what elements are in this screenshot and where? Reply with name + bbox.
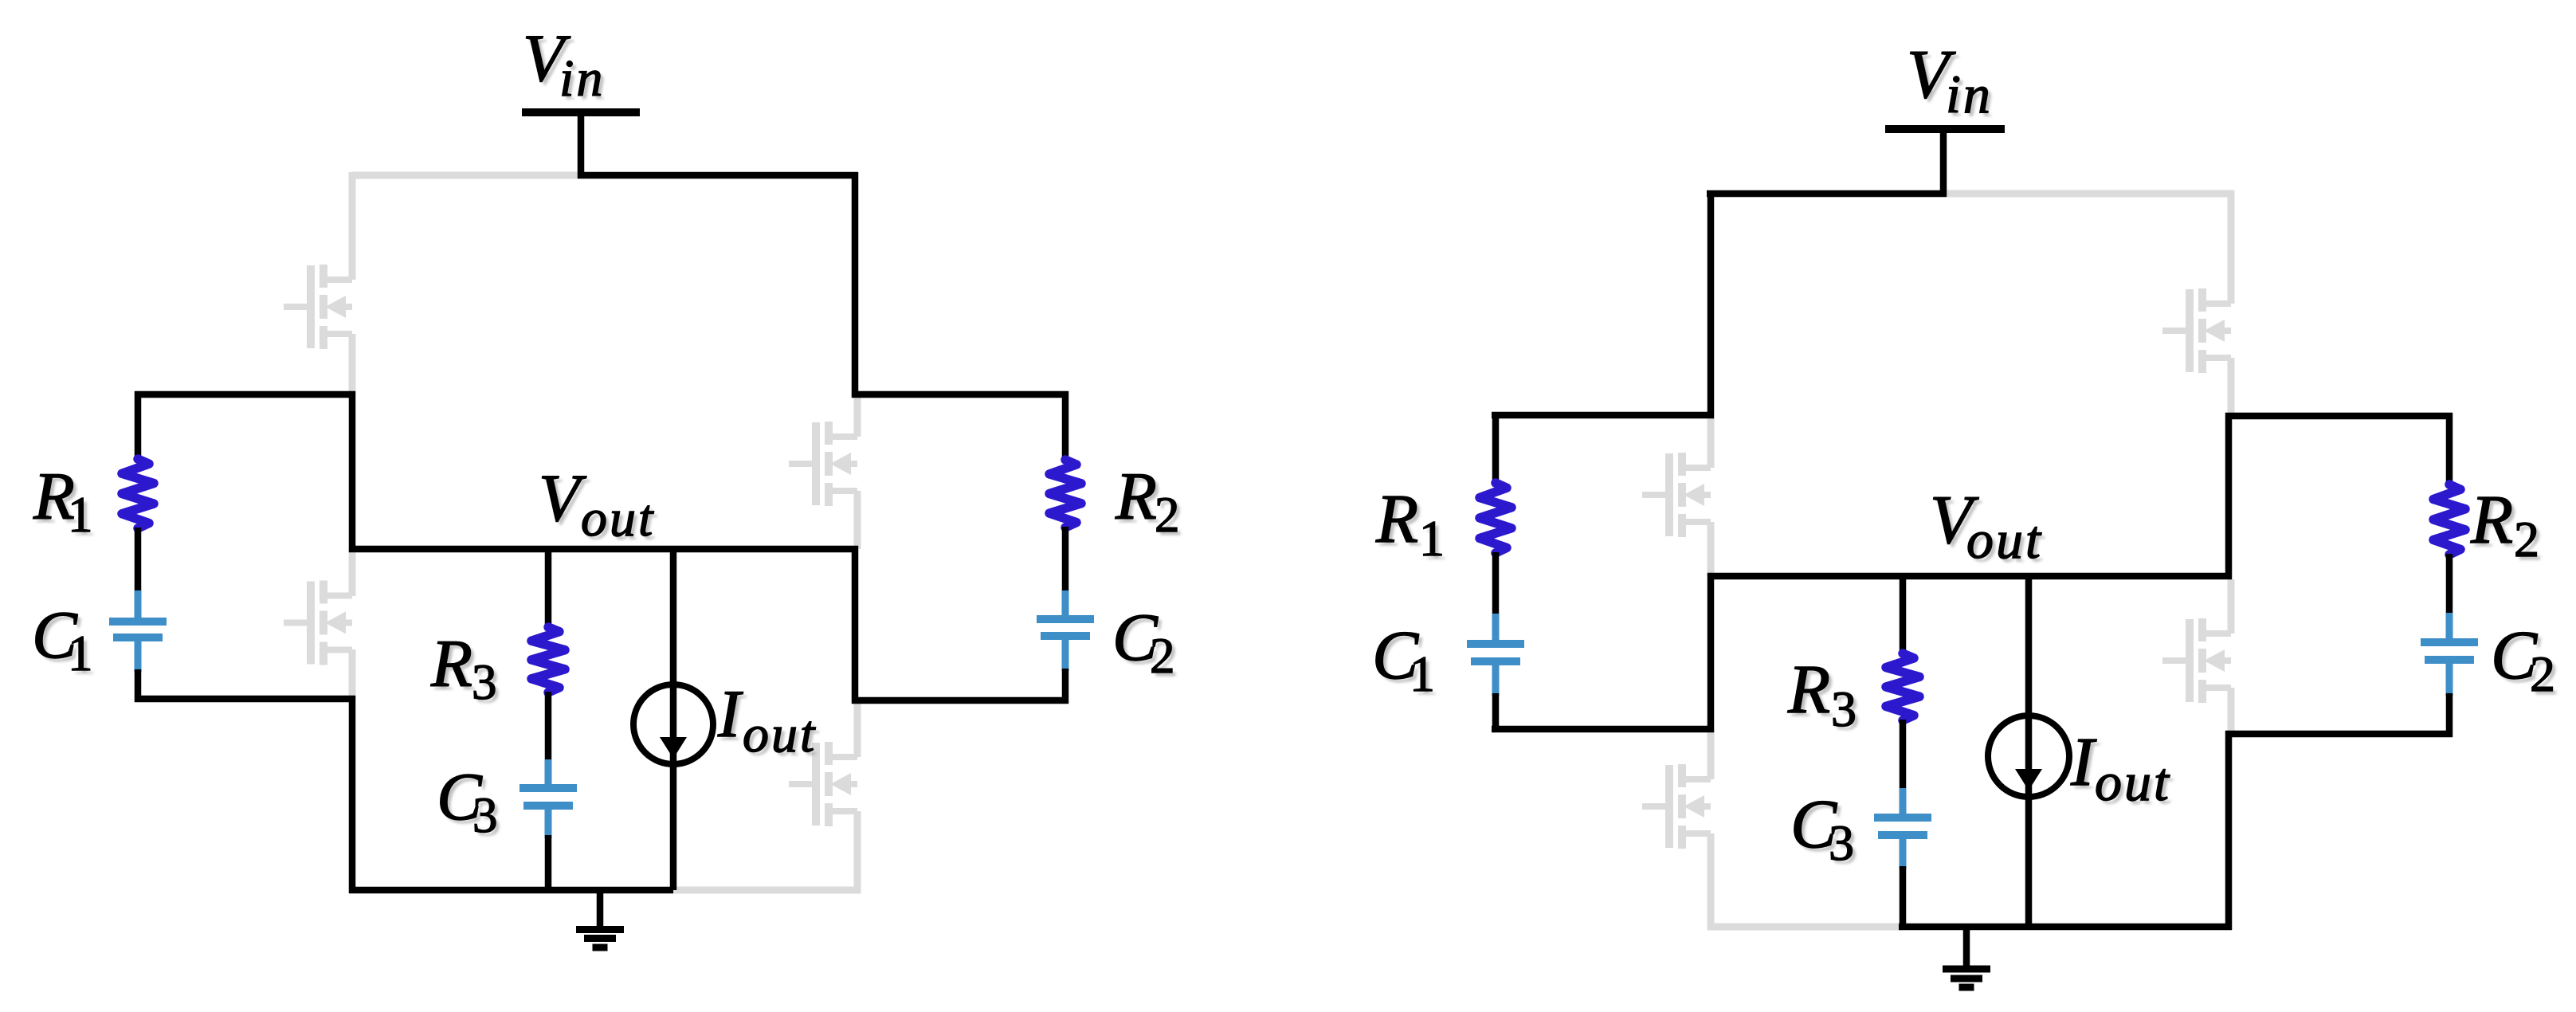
left circuit: gray wire segment below M3 to C1 bottom node — [349, 649, 356, 699]
left circuit: wire Vout horizontal — [349, 546, 858, 553]
right circuit: gray wire segment below Md to C2 bottom corner — [2228, 688, 2235, 731]
left circuit: gray wire segment C2 bottom corner to M4 drain — [854, 700, 861, 757]
capacitor C1 bottom lead (right) — [1492, 664, 1500, 696]
left circuit: gray wire segment above M1 (drain lead) — [349, 172, 356, 280]
right circuit: gray wire segment C1 bottom corner to Mc drain — [1708, 729, 1715, 779]
right circuit: wire R1 to C1 lead — [1492, 552, 1500, 617]
capacitor C3 top lead (right) — [1900, 788, 1907, 815]
label C2 (right) — [2491, 616, 2559, 706]
capacitor C1 — [109, 618, 167, 626]
left circuit: wire left column (switch node to Vout) — [349, 391, 356, 552]
svg-text:2: 2 — [1150, 628, 1175, 684]
label R3 (left) — [430, 626, 500, 714]
svg-text:3: 3 — [472, 787, 498, 843]
label Iout (right) — [2070, 723, 2174, 816]
right circuit: gray wire segment below Mb to Vout node — [1708, 522, 1715, 576]
capacitor C3 (right) — [1874, 814, 1931, 822]
svg-text:1: 1 — [68, 626, 93, 681]
label Vout (left) — [539, 461, 659, 551]
right circuit: wire R3 upper lead — [1900, 573, 1907, 654]
svg-text:2: 2 — [2530, 645, 2555, 702]
label R2 (right) — [2470, 481, 2543, 571]
svg-text:2: 2 — [2514, 511, 2539, 567]
ground symbol (right) — [1943, 927, 1990, 987]
left circuit: wire C1 bottom horizontal — [135, 696, 355, 703]
right circuit: gray wire segment Vout corner to Md drain — [2228, 579, 2235, 633]
svg-text:out: out — [1966, 509, 2043, 570]
right circuit: wire R2 upper lead — [2446, 413, 2453, 485]
capacitor C3 bottom lead (right) — [1900, 837, 1907, 869]
label R1 (left) — [33, 459, 96, 547]
resistor R3 (right) — [1886, 653, 1919, 720]
left circuit: gray wire Vin node to M1 drain — [352, 172, 581, 179]
label C3 (right) — [1790, 785, 1858, 875]
transistor M1 (off, top-left) — [284, 265, 352, 349]
left circuit: wire R1 top horizontal — [135, 391, 355, 398]
right circuit: wire R2 top horizontal — [2225, 413, 2452, 420]
svg-text:out: out — [581, 489, 655, 547]
right circuit: wire C3 lower lead — [1900, 866, 1907, 930]
transistor Ma (off, top-right) — [2162, 288, 2231, 373]
right circuit: Vin lead wire — [1940, 131, 1947, 197]
left circuit: wire left column lower (C1 bottom to ground rail) — [349, 696, 356, 893]
svg-text:in: in — [1946, 64, 1993, 124]
left circuit: wire bottom right horizontal — [852, 697, 1068, 704]
left circuit: wire C3 lower lead — [545, 835, 552, 893]
resistor R3 — [531, 627, 565, 692]
right circuit: gray wire segment R1 top corner to Mb drain — [1708, 418, 1715, 468]
right circuit: wire right column lower (C2 bottom to ground rail) — [2225, 731, 2233, 930]
left circuit: wire R2 upper lead — [1062, 391, 1069, 461]
right circuit: gray wire segment below Ma to R2 top corner — [2228, 358, 2235, 416]
label C1 (left) — [32, 598, 96, 685]
svg-text:3: 3 — [1829, 814, 1854, 871]
svg-text:R: R — [1375, 480, 1418, 557]
left circuit: wire Iout branch — [670, 546, 677, 890]
capacitor C3 — [520, 784, 577, 792]
capacitor C3 bottom lead — [545, 808, 552, 838]
right circuit: wire R1 upper lead — [1492, 412, 1500, 484]
left circuit: gray wire segment below M2 to Vout node — [854, 491, 861, 549]
svg-text:I: I — [717, 677, 743, 751]
label R1 (right) — [1375, 480, 1449, 571]
label C1 (right) — [1372, 616, 1439, 706]
resistor R1 — [122, 459, 154, 528]
svg-text:2: 2 — [1155, 487, 1180, 543]
transistor Md (off, mid-right) — [2162, 618, 2231, 703]
svg-text:1: 1 — [1419, 510, 1445, 567]
label C3 (left) — [437, 759, 501, 847]
svg-text:1: 1 — [1410, 645, 1435, 702]
right circuit: wire left column upper (Vin to R1 top) — [1708, 190, 1715, 418]
capacitor C2 bottom lead — [1062, 638, 1069, 671]
right circuit: wire Vin node horizontal — [1707, 190, 1947, 198]
right circuit: gray ground rail extension — [1708, 924, 1903, 931]
left circuit: Vin lead wire — [578, 115, 585, 178]
left circuit: gray wire segment below M1 (source lead) — [349, 334, 356, 394]
left circuit: wire R2 top horizontal — [852, 391, 1068, 398]
svg-text:R: R — [2470, 481, 2513, 558]
svg-text:in: in — [559, 49, 605, 108]
right circuit: wire right column upper (R2 top to Vout) — [2225, 413, 2233, 579]
current source Iout (left) — [633, 684, 713, 764]
right circuit: gray wire Vin node to Ma drain — [1947, 190, 2234, 198]
label R3 (right) — [1787, 650, 1860, 741]
left circuit: Vin terminal bar — [522, 108, 640, 116]
svg-text:I: I — [2070, 723, 2097, 800]
resistor R1 (right) — [1480, 483, 1511, 553]
capacitor C2 — [1037, 615, 1094, 623]
right circuit: wire C1 lower lead — [1492, 693, 1500, 732]
right circuit: wire Vout horizontal — [1708, 573, 2232, 580]
capacitor C3 top lead — [545, 759, 552, 786]
left circuit: wire right column mid (Vout to C2 bottom) — [852, 546, 859, 704]
label C2 (left) — [1112, 600, 1178, 688]
right circuit: wire C2 lower lead — [2446, 693, 2453, 737]
right circuit: wire R3 to C3 lead — [1900, 720, 1907, 791]
capacitor C1 (right) — [1467, 640, 1524, 648]
resistor R2 — [1049, 460, 1081, 528]
left circuit: wire R3 to C3 lead — [545, 692, 552, 763]
label Vout (right) — [1930, 481, 2046, 574]
right circuit: ground rail — [1899, 924, 2232, 931]
label Vin (left) — [523, 21, 609, 112]
transistor Mc (off, bottom-left) — [1642, 764, 1711, 849]
left circuit: gray wire segment below M4 to ground rail — [854, 811, 861, 893]
capacitor C1 top lead (right) — [1492, 614, 1500, 641]
right circuit: wire C1 bottom horizontal — [1492, 726, 1714, 733]
left circuit: gray wire segment Vout corner to M3 drain — [349, 549, 356, 596]
label Vin (right) — [1907, 35, 1996, 128]
left circuit: wire R3 upper lead — [545, 546, 552, 628]
capacitor C1 bottom lead — [135, 640, 142, 673]
svg-text:3: 3 — [472, 654, 497, 710]
capacitor C2 (right) — [2421, 638, 2478, 646]
right circuit: wire R2 to C2 lead — [2446, 554, 2453, 616]
capacitor C2 top lead (right) — [2446, 613, 2453, 640]
right circuit: wire left column mid (Vout to C1 bottom) — [1708, 573, 1715, 732]
right circuit: Vin terminal bar — [1885, 125, 2005, 133]
current source Iout (right) — [1988, 716, 2069, 797]
left circuit: wire C1 lower lead — [135, 669, 142, 702]
ground symbol (left) — [576, 890, 624, 947]
label R2 (left) — [1115, 459, 1183, 547]
transistor Mb (off, mid-left) — [1642, 453, 1711, 537]
left circuit: gray wire segment top-right corner to M2 drain — [854, 394, 861, 437]
right circuit: gray wire segment below Mc to ground rail — [1708, 834, 1715, 930]
left circuit: ground rail — [349, 887, 673, 894]
right circuit: gray wire segment above Ma (drain lead) — [2228, 190, 2235, 304]
svg-text:R: R — [1787, 650, 1830, 728]
svg-text:out: out — [2095, 751, 2171, 812]
svg-text:3: 3 — [1831, 681, 1857, 737]
svg-text:V: V — [539, 461, 587, 535]
left circuit: wire R1 upper lead — [135, 391, 142, 460]
left circuit: gray ground rail extension — [673, 887, 861, 894]
capacitor C2 top lead — [1062, 590, 1069, 617]
left circuit: wire R1 to C1 lead — [135, 528, 142, 594]
svg-text:R: R — [430, 626, 472, 701]
svg-text:R: R — [1115, 459, 1157, 534]
svg-text:1: 1 — [68, 487, 93, 543]
right circuit: wire C2 bottom horizontal — [2225, 731, 2452, 738]
svg-text:out: out — [743, 705, 817, 763]
right circuit: wire R1 top horizontal — [1492, 412, 1714, 419]
transistor M3 (off, mid-left) — [284, 581, 352, 665]
left circuit: wire Vin node horizontal — [578, 172, 858, 179]
right circuit: wire Iout branch — [2025, 573, 2033, 927]
capacitor C1 top lead — [135, 590, 142, 619]
capacitor C2 bottom lead (right) — [2446, 662, 2453, 696]
left circuit: wire right column upper (Vin to R2 top) — [852, 172, 859, 398]
transistor M2 (off, mid-right) — [789, 422, 857, 506]
resistor R2 (right) — [2433, 484, 2465, 555]
transistor M4 (off, bottom-right) — [789, 742, 857, 826]
label Iout (left) — [717, 677, 821, 767]
left circuit: wire R2 to C2 lead — [1062, 527, 1069, 594]
left circuit: wire C2 lower lead — [1062, 669, 1069, 704]
